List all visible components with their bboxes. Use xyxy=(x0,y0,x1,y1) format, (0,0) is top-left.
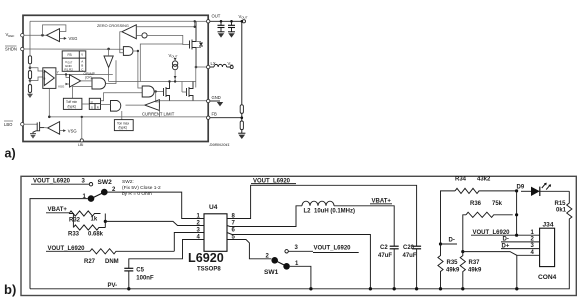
svg-text:D-: D- xyxy=(449,238,455,244)
inductor L2 10uH xyxy=(302,201,334,206)
wire R27 to U4 pin3 xyxy=(174,233,204,252)
comparator mux block (A/B) xyxy=(43,68,56,89)
inductor L-ext xyxy=(214,64,227,67)
ground xyxy=(228,31,235,33)
current source bias (ZC) xyxy=(142,33,147,38)
svg-text:VBAT+: VBAT+ xyxy=(48,207,68,213)
svg-text:D9: D9 xyxy=(517,185,525,191)
node R37 gnd xyxy=(461,287,464,290)
wire divider xyxy=(241,21,243,105)
svg-text:R15: R15 xyxy=(555,201,567,207)
svg-text:47uF: 47uF xyxy=(378,253,392,259)
body diode D1 xyxy=(196,41,201,43)
wire SW2 pin1 to PV- xyxy=(30,199,88,289)
svg-text:VSG: VSG xyxy=(68,128,77,133)
resistor R35 49k9 xyxy=(438,244,443,289)
wire SHDN to buffer xyxy=(108,49,110,56)
node A tap xyxy=(29,66,32,69)
svg-text:C2: C2 xyxy=(380,245,388,251)
pin VREF xyxy=(21,34,24,37)
svg-text:(typic): (typic) xyxy=(119,126,128,130)
svg-text:49k9: 49k9 xyxy=(468,267,482,273)
Ton max block xyxy=(114,120,133,131)
wire branch to comparator xyxy=(156,92,160,102)
OR gate (min-on logic) xyxy=(111,101,121,112)
wire R2-R3 xyxy=(29,79,31,85)
svg-text:a): a) xyxy=(5,147,16,161)
resistor feedback upper xyxy=(240,105,243,114)
svg-text:R33: R33 xyxy=(68,231,80,237)
node VOUT terminal xyxy=(242,20,245,23)
svg-text:R35: R35 xyxy=(447,260,459,266)
node VIN terminal xyxy=(230,66,233,69)
svg-text:R1,R2: R1,R2 xyxy=(64,68,73,72)
wire ZC input upper xyxy=(136,21,194,27)
wire U4 pin4 to C5 xyxy=(129,240,204,269)
wire PMOS branch xyxy=(195,50,197,88)
wire Y output xyxy=(56,74,113,76)
wire divider to U4 pin2 xyxy=(105,221,204,225)
svg-text:VSG: VSG xyxy=(58,85,65,89)
ground xyxy=(218,31,225,33)
wire U4 pin6 to ground xyxy=(227,233,370,289)
comparator LBO xyxy=(48,122,60,135)
node SW1 gnd xyxy=(309,287,312,290)
node LX internal xyxy=(195,66,198,69)
wire SW2 pin2 to U4 pin1 xyxy=(108,192,205,218)
svg-text:LX: LX xyxy=(211,61,216,66)
wire OR inputs xyxy=(101,103,111,105)
svg-text:CON4: CON4 xyxy=(538,274,557,281)
pin SHDN xyxy=(21,47,24,50)
wire LBI xyxy=(81,117,83,139)
node pin6 gnd xyxy=(369,287,372,290)
resistor divider R3 (internal) xyxy=(28,85,31,93)
wire D9 to VOUT_L6920/J34 xyxy=(516,191,518,235)
wire driver out xyxy=(154,91,163,93)
svg-text:VOUT_L6920: VOUT_L6920 xyxy=(33,179,71,185)
svg-text:OUT: OUT xyxy=(241,16,248,20)
wire ZC out xyxy=(120,32,124,53)
resistor divider R1 (internal) xyxy=(28,56,31,64)
wire U4 pin5 to SW1 xyxy=(227,240,271,259)
node Y branch xyxy=(65,73,67,75)
switch SW2 pin3 xyxy=(89,183,92,186)
wire buffer out xyxy=(108,68,110,82)
svg-text:0k1: 0k1 xyxy=(556,207,567,213)
svg-text:OUT: OUT xyxy=(212,13,221,18)
svg-text:D98IN1041: D98IN1041 xyxy=(210,142,230,147)
svg-text:B: B xyxy=(44,77,46,81)
capacitor C5 100nF xyxy=(124,267,133,269)
resistor divider R2 (internal) xyxy=(28,71,31,79)
op-amp VSG regulator (top-left) xyxy=(47,29,60,42)
wire opamp out xyxy=(81,80,92,82)
buffer triangle down xyxy=(104,56,113,68)
AND gate U-B (shutdown gating) xyxy=(123,47,133,56)
wire OR output down xyxy=(121,111,123,120)
wire FB external xyxy=(210,117,242,119)
svg-text:47uF: 47uF xyxy=(403,253,417,259)
wire LBO VSG xyxy=(60,130,65,132)
svg-text:R: R xyxy=(97,105,99,109)
node FB junction xyxy=(241,116,244,119)
svg-text:C5: C5 xyxy=(136,267,144,273)
svg-text:LBI: LBI xyxy=(78,143,83,147)
net D- stub xyxy=(439,242,442,245)
svg-text:GND: GND xyxy=(212,95,221,100)
wire gate out down xyxy=(133,51,142,88)
pin GND xyxy=(207,99,210,102)
ground rail PV- xyxy=(30,221,569,289)
wire OUT external xyxy=(210,20,242,22)
svg-text:100nF: 100nF xyxy=(136,275,154,281)
svg-text:S: S xyxy=(91,105,93,109)
node divider top xyxy=(241,20,244,23)
capacitor C20 47uF xyxy=(412,245,421,247)
ground below divider xyxy=(29,93,31,94)
node R35 gnd xyxy=(439,287,442,290)
wire drain bus xyxy=(109,81,196,83)
pin LBI xyxy=(80,139,83,142)
svg-text:SW2:: SW2: xyxy=(122,179,134,185)
svg-text:FB: FB xyxy=(212,112,218,117)
flip-flop SR xyxy=(89,98,100,109)
node cap C-A xyxy=(220,20,223,23)
svg-text:1k: 1k xyxy=(91,216,98,222)
ground at GND pin xyxy=(210,100,220,102)
wire LX external xyxy=(210,66,214,68)
svg-text:SW2: SW2 xyxy=(98,179,113,186)
wire gate drive loop xyxy=(140,44,183,82)
wire right join R32/R33 xyxy=(104,214,106,228)
IC U4 L6920 xyxy=(204,214,227,252)
wire SW1 pin1 to gnd xyxy=(290,266,311,289)
svg-text:R34: R34 xyxy=(455,176,467,182)
schematic frame xyxy=(21,176,576,295)
wire Toff to FF xyxy=(82,103,89,105)
svg-text:49k9: 49k9 xyxy=(446,267,460,273)
wire R32 left join xyxy=(69,214,73,228)
svg-text:OUT: OUT xyxy=(171,54,178,58)
svg-text:75k: 75k xyxy=(492,201,503,207)
svg-text:VSG: VSG xyxy=(69,36,78,41)
svg-text:ZERO CROSSING: ZERO CROSSING xyxy=(97,24,129,28)
wire SHDN xyxy=(24,48,123,50)
svg-text:LBO: LBO xyxy=(4,122,13,127)
wire AND output xyxy=(106,60,117,83)
node J34 pin1 xyxy=(515,234,518,237)
svg-text:b): b) xyxy=(4,282,16,297)
wire VSG amp input xyxy=(60,37,66,39)
wire J34 pin4 to gnd xyxy=(517,255,540,288)
ground below divider xyxy=(241,130,243,134)
AND gate U-A (opamp gating) xyxy=(92,78,105,89)
node C20 gnd xyxy=(415,287,418,290)
node J34 pin4 gnd xyxy=(515,287,518,290)
wire to opamp input xyxy=(66,75,70,78)
svg-text:VREF: VREF xyxy=(6,32,15,38)
transistor LBO xyxy=(24,122,44,139)
wire L2 to VBAT+ xyxy=(334,206,394,246)
svg-text:R36: R36 xyxy=(470,201,482,207)
svg-text:CURRENT LIMIT: CURRENT LIMIT xyxy=(142,111,175,116)
resistor R27 DNM xyxy=(90,249,174,254)
svg-text:in: in xyxy=(230,63,233,67)
node D9 anode xyxy=(515,189,518,192)
wire A input xyxy=(30,68,43,71)
resistor R33 0.68k xyxy=(73,225,105,230)
wire ZC input lower xyxy=(136,34,142,36)
wire comparator out xyxy=(126,104,145,106)
svg-text:PV-: PV- xyxy=(108,283,118,289)
resistor R37 49k9 xyxy=(461,250,464,253)
wire AND lower input xyxy=(73,87,93,99)
wire U4 pin7 to L2 xyxy=(227,206,302,227)
svg-text:R32: R32 xyxy=(69,217,81,223)
Toff min block xyxy=(63,98,82,109)
svg-text:(typic): (typic) xyxy=(68,104,77,108)
svg-text:VOUT_L6920: VOUT_L6920 xyxy=(314,245,352,251)
svg-text:SHDN: SHDN xyxy=(5,47,17,52)
transistor N1 xyxy=(164,82,170,101)
wire FB sense xyxy=(49,88,208,117)
node C2 gnd xyxy=(393,287,396,290)
svg-text:U4: U4 xyxy=(209,204,218,211)
LED arrows xyxy=(542,184,546,188)
svg-text:DNM: DNM xyxy=(105,259,119,265)
resistor feedback lower xyxy=(240,121,243,130)
svg-text:J34: J34 xyxy=(543,222,554,229)
node SHDN branch xyxy=(107,48,110,51)
comparator current limit xyxy=(145,100,160,111)
wire R1-R2 xyxy=(29,64,31,71)
svg-text:A: A xyxy=(44,70,46,74)
capacitor C-B xyxy=(228,21,235,37)
wire U4 pin8 to VOUT rail xyxy=(227,185,417,246)
svg-text:FB: FB xyxy=(68,53,72,57)
connector J34 CON4 xyxy=(540,228,555,266)
node C5 on PV- xyxy=(127,287,130,290)
wire current source down xyxy=(174,70,176,82)
node R36 right xyxy=(515,213,518,216)
pin OUT xyxy=(207,20,210,23)
op-amp CR xyxy=(70,75,81,87)
signal table box xyxy=(62,51,86,72)
svg-text:TSSOP8: TSSOP8 xyxy=(197,266,221,272)
wire VSG to opamp xyxy=(67,83,70,85)
wire B input xyxy=(30,77,43,81)
wire R36/R37 to J34 pin4 row xyxy=(463,252,517,256)
svg-text:R27: R27 xyxy=(84,259,96,265)
node B tap xyxy=(29,79,32,82)
wire OUT internal xyxy=(195,20,208,22)
wire feedback loop of VSG amp xyxy=(43,25,66,35)
AND gate U-C (driver) xyxy=(142,86,154,97)
node cap C-B xyxy=(230,20,233,23)
capacitor C2 47uF xyxy=(390,245,399,247)
transistor P1 (sync rect PMOS) xyxy=(190,21,204,67)
svg-text:(Fix 5V) Close 1-2: (Fix 5V) Close 1-2 xyxy=(122,185,161,191)
svg-text:L2: L2 xyxy=(304,208,312,214)
wire VREF xyxy=(24,34,47,36)
svg-text:SW1: SW1 xyxy=(264,269,279,276)
svg-text:(CR): (CR) xyxy=(85,75,92,79)
node VREF junction xyxy=(41,34,44,37)
svg-text:L6920: L6920 xyxy=(188,251,224,265)
svg-text:C20: C20 xyxy=(403,245,415,251)
svg-text:R37: R37 xyxy=(469,260,481,266)
wire LX internal xyxy=(196,66,208,68)
wire VOUT sense rail xyxy=(30,20,195,22)
wire SW1 pin3 net xyxy=(288,250,313,252)
pin LX xyxy=(207,65,210,68)
svg-text:43k2: 43k2 xyxy=(477,176,491,182)
svg-text:0.68k: 0.68k xyxy=(88,231,104,237)
capacitor C-A xyxy=(218,21,225,37)
wire resistor chain top xyxy=(29,21,31,56)
wire GND bus internal xyxy=(160,100,208,102)
svg-text:10uH (0.1MHz): 10uH (0.1MHz) xyxy=(314,208,355,214)
pin LBO xyxy=(21,123,24,126)
pin FB xyxy=(207,116,210,119)
node R32/R33 xyxy=(104,220,107,223)
comparator zero crossing xyxy=(122,25,136,39)
wire FF Q output xyxy=(101,93,143,101)
IC boundary box xyxy=(23,15,208,141)
transistor N2 xyxy=(182,82,193,101)
resistor R32 1k xyxy=(69,211,101,216)
